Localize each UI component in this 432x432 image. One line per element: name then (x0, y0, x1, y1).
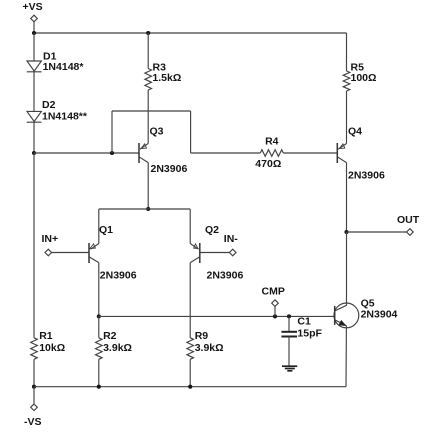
wire D1 to D2 (33, 72, 35, 112)
wire top rail (34, 32, 347, 34)
svg-text:15pF: 15pF (297, 328, 322, 340)
wire OUT (347, 231, 407, 233)
wire bias right drop (190, 111, 192, 153)
node IN- terminal (229, 249, 236, 256)
wire D2 to bias node (33, 122, 35, 153)
diode D1 (27, 61, 41, 71)
svg-text:2N3906: 2N3906 (207, 269, 244, 281)
wire bias net y153 (34, 152, 139, 154)
wire R5 top (346, 33, 348, 71)
svg-text:-VS: -VS (24, 416, 42, 428)
wire R1 to bottom rail (33, 359, 35, 386)
svg-text:3.9kΩ: 3.9kΩ (195, 342, 224, 354)
node +VS terminal (31, 15, 38, 22)
wire IN+ to Q1 base (52, 252, 90, 254)
junction dot Q1 collector (97, 314, 101, 318)
junction dot top-left (32, 31, 36, 35)
svg-text:3.9kΩ: 3.9kΩ (103, 342, 132, 354)
wire Q5 emitter to bottom rail (345, 326, 347, 387)
transistor Q3 (139, 143, 148, 163)
wire R4 to Q4 base (283, 152, 337, 154)
wire to -VS (33, 387, 35, 404)
resistor R9 (187, 338, 194, 360)
wire left rail to D1 (33, 33, 35, 61)
svg-text:2N3904: 2N3904 (361, 308, 398, 320)
wire bias top horizontal (112, 110, 191, 112)
svg-text:1N4148*: 1N4148* (43, 61, 85, 73)
wire Q2 base to IN- (200, 252, 230, 254)
wire Q3 collector to tail (147, 163, 149, 209)
node CMP terminal (272, 300, 279, 307)
wire comp net y316 (99, 315, 334, 317)
node IN+ terminal (45, 249, 52, 256)
junction dot R9 bottom (188, 385, 192, 389)
svg-text:C1: C1 (297, 316, 311, 328)
svg-text:R9: R9 (195, 330, 209, 342)
wire Q1 collector down (98, 263, 100, 317)
junction dot bottom-left (32, 385, 36, 389)
wire R2 top (98, 316, 100, 337)
svg-text:Q4: Q4 (348, 126, 362, 138)
wire R9 bottom (189, 359, 191, 386)
svg-text:R4: R4 (265, 135, 279, 147)
transistor Q4 (337, 143, 346, 163)
svg-text:470Ω: 470Ω (255, 158, 281, 170)
svg-text:2N3906: 2N3906 (348, 170, 385, 182)
svg-text:CMP: CMP (262, 286, 285, 298)
svg-text:Q3: Q3 (150, 126, 164, 138)
svg-text:Q2: Q2 (205, 224, 219, 236)
svg-text:2N3906: 2N3906 (151, 163, 188, 175)
capacitor C1 (281, 331, 297, 333)
ground (282, 366, 297, 371)
resistor R3 (145, 69, 152, 91)
wire OUT node to Q5 collector (346, 232, 348, 306)
svg-text:OUT: OUT (397, 214, 420, 226)
svg-text:D2: D2 (42, 99, 56, 111)
svg-text:IN+: IN+ (42, 233, 59, 245)
wire +VS to top rail (33, 22, 35, 33)
node -VS terminal (31, 404, 38, 411)
wire Q2 collector to R9 (189, 263, 191, 338)
wire R5 to Q4 emitter (346, 91, 348, 144)
resistor R5 (343, 71, 350, 91)
junction dot R3 top (146, 31, 150, 35)
wire R2 bottom (98, 359, 100, 386)
svg-text:+VS: +VS (23, 1, 43, 13)
junction dot bias riser (110, 151, 114, 155)
wire C1 top (288, 316, 290, 331)
wire C1 to ground (288, 337, 290, 367)
wire CMP stem (274, 306, 276, 316)
svg-text:IN-: IN- (224, 233, 239, 245)
transistor Q5 (334, 303, 359, 328)
transistor Q1 (89, 209, 99, 263)
svg-text:10kΩ: 10kΩ (39, 342, 65, 354)
svg-text:R2: R2 (103, 330, 117, 342)
svg-text:R1: R1 (39, 330, 53, 342)
resistor R4 (260, 150, 283, 157)
resistor R1 (31, 338, 38, 360)
svg-text:Q1: Q1 (99, 224, 113, 236)
wire R3 top (147, 33, 149, 69)
wire left rail to R1 (33, 153, 35, 338)
transistor Q2 (190, 209, 200, 263)
wire tail (99, 208, 190, 210)
svg-text:1N4148**: 1N4148** (42, 111, 88, 123)
junction dot C1 tap (287, 314, 291, 318)
wire bias riser (111, 111, 113, 153)
svg-text:1.5kΩ: 1.5kΩ (152, 72, 181, 84)
diode D2 (27, 111, 41, 121)
wire R3 to Q3 emitter (147, 90, 149, 144)
svg-text:2N3906: 2N3906 (100, 269, 137, 281)
wire bottom rail (34, 386, 346, 388)
node OUT terminal (407, 229, 414, 236)
svg-text:100Ω: 100Ω (351, 72, 377, 84)
junction dot R2 bottom (97, 385, 101, 389)
junction dot tail (146, 207, 150, 211)
junction dot CMP tap (273, 314, 277, 318)
junction dot left bias (32, 151, 36, 155)
wire to R4 (191, 152, 261, 154)
resistor R2 (96, 338, 103, 360)
wire Q4 collector to OUT node (346, 163, 348, 232)
junction dot OUT (344, 230, 348, 234)
